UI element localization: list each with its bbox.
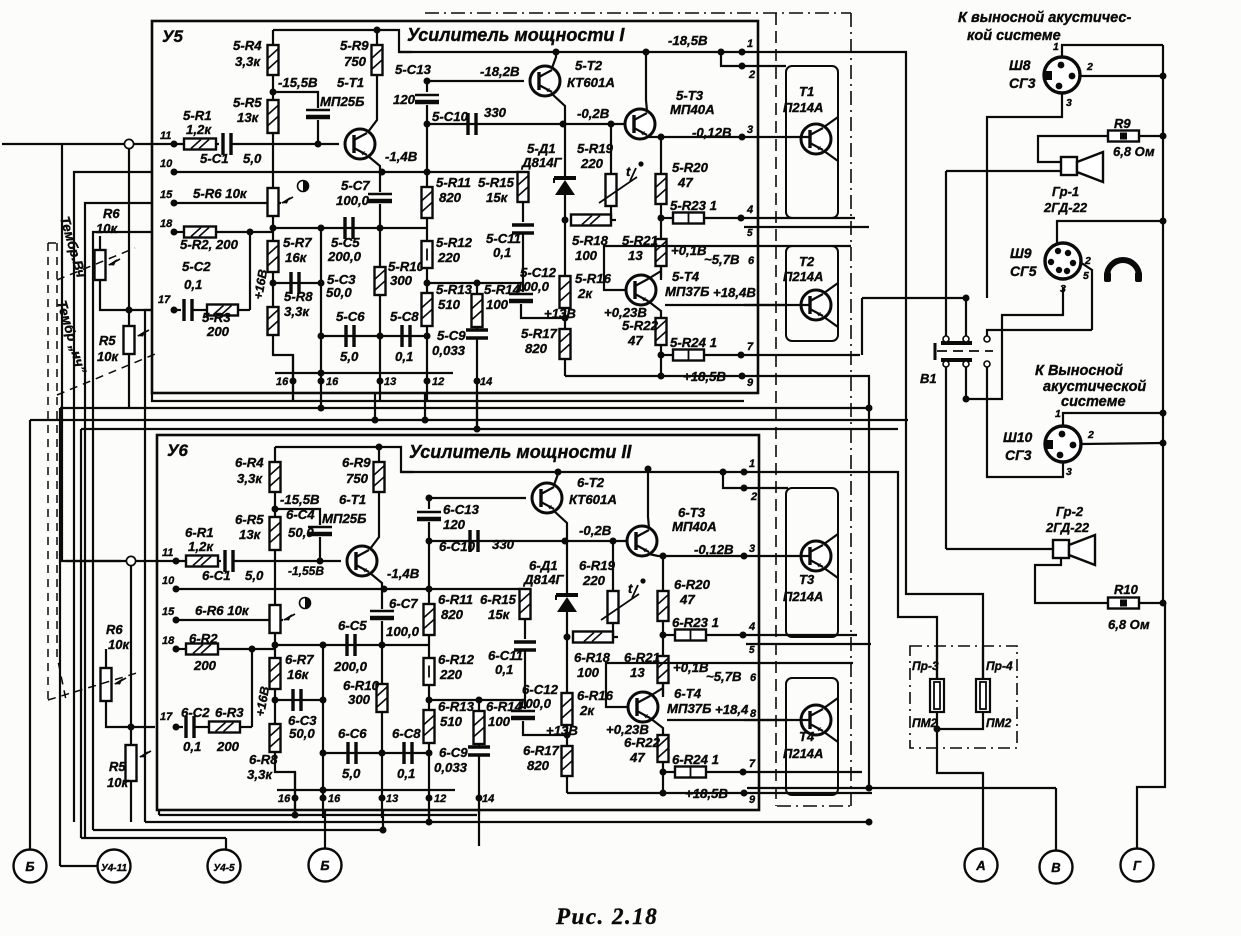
transistor Т3 — [801, 541, 831, 571]
B1 lead top2 — [965, 298, 967, 336]
svg-text:6-R2: 6-R2 — [189, 631, 218, 646]
node — [740, 632, 747, 639]
node — [658, 373, 665, 380]
connector Ш8 — [1044, 57, 1080, 93]
wire — [566, 541, 568, 595]
svg-text:1: 1 — [1055, 408, 1061, 420]
node — [318, 225, 325, 232]
resistor 5-R19 (thermistor) — [606, 174, 617, 206]
svg-text:9: 9 — [749, 794, 756, 806]
node — [426, 495, 433, 502]
svg-text:Гр-1: Гр-1 — [1052, 184, 1079, 199]
svg-text:15к: 15к — [488, 607, 511, 622]
svg-text:47: 47 — [677, 175, 693, 190]
transistor 6-T2 — [532, 483, 562, 513]
connector Ш10 — [1045, 426, 1081, 462]
node — [1160, 133, 1167, 140]
svg-text:5-R10: 5-R10 — [388, 259, 425, 274]
svg-text:0,1: 0,1 — [183, 739, 201, 754]
svg-text:Б: Б — [320, 858, 329, 873]
pin 2 wire — [721, 52, 786, 66]
wire — [428, 743, 430, 818]
capacitor 5-C3 — [289, 272, 292, 294]
node — [660, 769, 667, 776]
thermistor arrow t° — [599, 177, 637, 203]
resistor 6-R4 — [270, 462, 281, 492]
wire — [610, 124, 612, 174]
svg-text:6,8 Ом: 6,8 Ом — [1108, 617, 1150, 632]
svg-text:5-R19: 5-R19 — [577, 141, 614, 156]
svg-text:Усилитель мощности II: Усилитель мощности II — [409, 442, 632, 462]
node — [424, 280, 431, 287]
svg-text:5,0: 5,0 — [340, 349, 359, 364]
potentiometer R5b — [126, 745, 137, 781]
svg-text:-0,2В: -0,2В — [579, 523, 612, 538]
wire — [381, 712, 383, 818]
T2 emitter wire — [552, 94, 565, 124]
resistor 6-R23 — [675, 630, 706, 641]
capacitor 5-C9 — [466, 328, 488, 331]
Т4 base wire — [744, 719, 810, 721]
transistor 6-T3 — [627, 526, 657, 556]
svg-text:+18,4В: +18,4В — [713, 285, 756, 300]
node — [377, 378, 384, 385]
T2 collector wire — [552, 52, 556, 68]
svg-text:16: 16 — [276, 376, 289, 388]
wire Ш9.3 route — [966, 287, 1063, 399]
node pin11 — [171, 141, 178, 148]
node — [318, 370, 325, 377]
node — [476, 795, 483, 802]
svg-text:-18,5В: -18,5В — [668, 33, 708, 48]
fuse Пр-3 — [930, 679, 944, 712]
node — [741, 485, 748, 492]
node — [372, 417, 379, 424]
connector Ш9 — [1045, 243, 1081, 279]
wire pin14 drop — [476, 393, 478, 429]
svg-text:9: 9 — [747, 377, 754, 389]
Ш9 top wire — [1057, 221, 1163, 243]
resistor 6-R8 — [270, 724, 281, 752]
T4 emitter wire — [650, 718, 663, 735]
wire — [134, 143, 184, 145]
svg-text:6-С10: 6-С10 — [439, 539, 476, 554]
input terminal circle — [124, 139, 133, 148]
capacitor 5-C13 — [415, 94, 439, 96]
svg-text:10: 10 — [162, 575, 175, 587]
svg-text:1,2к: 1,2к — [188, 539, 214, 554]
wire — [376, 30, 378, 45]
wire — [476, 283, 478, 294]
resistor 5-R1 — [184, 139, 216, 150]
Т2 base wire — [744, 304, 810, 306]
svg-text:6-R17: 6-R17 — [523, 743, 560, 758]
resistor 5-R8 — [268, 307, 279, 335]
svg-text:5-R2, 200: 5-R2, 200 — [180, 237, 239, 252]
wire col380 — [381, 589, 383, 609]
wire left vert x74 — [74, 172, 152, 822]
T3 collector wire — [648, 469, 649, 528]
svg-text:0,1: 0,1 — [397, 766, 415, 781]
switch В1 top contact circles — [943, 336, 949, 342]
svg-text:17: 17 — [160, 711, 173, 723]
wire +18,5 rail — [565, 375, 744, 377]
node — [424, 121, 431, 128]
pin 6 wire — [744, 245, 851, 247]
node — [740, 769, 747, 776]
node — [270, 225, 277, 232]
capacitor 5-C12 — [509, 293, 533, 295]
Т3 base wire — [744, 555, 810, 557]
wire col869 — [868, 376, 870, 788]
svg-text:5-R22: 5-R22 — [622, 318, 659, 333]
svg-text:МП40А: МП40А — [672, 519, 717, 534]
svg-text:18: 18 — [162, 635, 175, 647]
svg-text:5-R20: 5-R20 — [672, 160, 709, 175]
svg-text:50,0: 50,0 — [288, 525, 314, 540]
adjust mark — [298, 181, 309, 192]
node — [741, 553, 748, 560]
node — [173, 724, 180, 731]
wire — [174, 309, 181, 311]
node — [739, 49, 746, 56]
node — [426, 538, 433, 545]
node — [173, 646, 180, 653]
Т1 collector wire — [824, 117, 838, 127]
transistor 5-T1 — [345, 129, 375, 159]
node — [426, 750, 433, 757]
svg-text:А: А — [975, 858, 985, 873]
wire — [663, 634, 675, 636]
T1 collector wire — [368, 75, 377, 132]
Т4 collector wire — [824, 698, 838, 708]
R10 inner mark — [1120, 600, 1127, 607]
wire — [272, 75, 274, 100]
svg-text:0,033: 0,033 — [434, 760, 468, 775]
T4 collector wire — [650, 688, 663, 696]
wire — [249, 232, 251, 310]
wire — [660, 204, 662, 239]
svg-text:П214А: П214А — [783, 269, 823, 284]
wire pin12 drop — [424, 393, 426, 420]
svg-text:Т2: Т2 — [799, 254, 815, 269]
wire rail283 — [429, 699, 523, 701]
svg-text:6-Т1: 6-Т1 — [339, 492, 366, 507]
svg-text:13к: 13к — [239, 527, 262, 542]
pin 6 wire — [746, 662, 853, 664]
wire — [662, 683, 664, 695]
wire — [706, 771, 746, 773]
amplifier block У6 border — [157, 435, 759, 810]
chassis border top dash-dot — [425, 12, 851, 14]
wire B row788 — [747, 787, 1056, 789]
svg-text:10к: 10к — [96, 221, 118, 236]
node — [555, 469, 562, 476]
node — [379, 795, 386, 802]
svg-text:В1: В1 — [920, 371, 937, 386]
wire — [238, 309, 250, 311]
svg-text:6-R22: 6-R22 — [624, 735, 661, 750]
svg-text:47: 47 — [679, 592, 695, 607]
svg-text:200,0: 200,0 — [333, 659, 368, 674]
resistor 5-R20 — [656, 174, 667, 204]
resistor 6-R13 — [424, 710, 435, 743]
svg-text:3,3к: 3,3к — [237, 471, 263, 486]
svg-text:5-R5: 5-R5 — [233, 95, 262, 110]
Ш8 pin2 wire — [1080, 75, 1163, 77]
wire R8 to pin16 — [275, 752, 295, 818]
svg-text:0,033: 0,033 — [432, 343, 466, 358]
R5 leads — [128, 149, 130, 326]
node — [290, 378, 297, 385]
wire U6 pin1 to fuse3 col — [746, 472, 937, 679]
wire bus y429 — [81, 428, 898, 430]
wire — [240, 726, 252, 728]
T2 collector wire — [554, 472, 558, 485]
wire — [428, 685, 430, 710]
R6 lead bottom — [100, 280, 152, 310]
resistor 6-R21 — [658, 656, 669, 683]
wire — [273, 282, 321, 284]
R6 wiper arrow — [109, 259, 120, 265]
node — [272, 697, 279, 704]
svg-text:5-С8: 5-С8 — [390, 309, 419, 324]
Т2 emitter wire — [824, 317, 838, 327]
svg-text:5-R11: 5-R11 — [436, 175, 471, 190]
Т1 base wire — [744, 136, 810, 138]
adjust mark — [300, 598, 311, 609]
wire — [426, 326, 428, 401]
transistor Т2 box — [786, 246, 838, 341]
Гр-2 return — [1035, 558, 1108, 603]
switch В1 bottom contact circles — [943, 361, 949, 367]
wire left vert x145 — [145, 310, 152, 822]
wire — [136, 560, 186, 562]
svg-text:100: 100 — [488, 714, 511, 729]
transistor Т4 — [801, 705, 831, 735]
wire — [660, 137, 662, 174]
wire — [564, 124, 566, 178]
svg-text:У4-11: У4-11 — [101, 863, 127, 874]
R5b lead bottom — [130, 781, 132, 822]
R9 inner mark — [1120, 133, 1127, 140]
B1 lead top3 — [987, 330, 1092, 336]
wire — [251, 649, 253, 727]
node — [660, 790, 667, 797]
svg-text:3: 3 — [749, 543, 755, 555]
node — [658, 352, 665, 359]
svg-text:12: 12 — [432, 376, 444, 388]
wire bus y408 — [60, 407, 869, 409]
resistor 5-R15 — [518, 172, 529, 202]
svg-text:100,0: 100,0 — [336, 193, 370, 208]
dashed link vertical — [47, 243, 49, 700]
resistor 5-R13 — [422, 293, 433, 326]
pin 9 wire — [746, 792, 872, 794]
node — [380, 827, 387, 834]
wire input — [65, 560, 126, 562]
svg-text:100,0: 100,0 — [516, 279, 550, 294]
amplifier block У5 border — [152, 21, 758, 393]
transistor Т4 box — [786, 678, 838, 795]
resistor 5-R24 — [673, 350, 704, 361]
svg-text:Ш8: Ш8 — [1009, 57, 1031, 73]
wire row10 — [174, 171, 523, 173]
svg-text:10: 10 — [160, 158, 173, 170]
node — [474, 426, 481, 433]
wire — [274, 550, 276, 605]
svg-text:6,8 Ом: 6,8 Ом — [1113, 144, 1155, 159]
svg-text:5-Т3: 5-Т3 — [676, 88, 704, 103]
svg-text:5-Д1: 5-Д1 — [527, 141, 556, 156]
svg-text:-15,5В: -15,5В — [280, 492, 320, 507]
transistor 5-T2 — [530, 66, 560, 96]
svg-text:120: 120 — [443, 517, 466, 532]
node — [739, 373, 746, 380]
fuse Пр-4 — [976, 679, 990, 712]
B1 lead bottom2 — [965, 367, 967, 399]
wire — [524, 619, 526, 639]
svg-text:13: 13 — [630, 665, 645, 680]
R10 right lead — [1139, 602, 1163, 604]
svg-text:5-Т1: 5-Т1 — [337, 75, 364, 90]
node pin11 — [173, 558, 180, 565]
node — [315, 141, 322, 148]
wire — [272, 272, 274, 307]
svg-text:6-С2: 6-С2 — [181, 705, 210, 720]
wire C12 to R16R17 — [523, 721, 567, 735]
node — [422, 417, 429, 424]
svg-text:3: 3 — [747, 124, 753, 136]
Гр-2 feed — [946, 548, 1053, 550]
svg-text:5,0: 5,0 — [342, 766, 361, 781]
node — [608, 121, 615, 128]
node — [424, 169, 431, 176]
switch В1 top contacts — [941, 341, 972, 345]
resistor 6-R15 — [520, 589, 531, 619]
wire — [274, 633, 276, 658]
chassis border right of transistor column (dash-dot) — [850, 13, 852, 806]
node — [426, 795, 433, 802]
resistor 5-R11 — [422, 187, 433, 218]
svg-text:У6: У6 — [167, 441, 189, 460]
svg-text:Пр-4: Пр-4 — [986, 659, 1013, 673]
wire — [378, 447, 380, 462]
node — [866, 405, 873, 412]
node — [320, 642, 327, 649]
svg-text:-1,55В: -1,55В — [288, 564, 324, 578]
resistor 5-R12 — [422, 241, 433, 268]
svg-text:5-R3: 5-R3 — [202, 310, 231, 325]
capacitor 5-C5 — [343, 217, 346, 239]
node — [564, 634, 571, 641]
wire — [478, 744, 480, 747]
svg-text:1: 1 — [1053, 41, 1059, 53]
B1 lead bottom1 — [945, 367, 947, 549]
svg-text:6-С5: 6-С5 — [338, 618, 367, 633]
wire — [194, 726, 209, 728]
resistor 6-R12 — [424, 658, 435, 685]
svg-text:5-Т4: 5-Т4 — [672, 269, 700, 284]
wire — [428, 522, 430, 604]
dashed link to R6 — [57, 248, 135, 280]
svg-text:-0,12В: -0,12В — [694, 542, 734, 557]
svg-text:510: 510 — [440, 714, 463, 729]
svg-text:6-R13: 6-R13 — [438, 699, 475, 714]
wire — [476, 338, 478, 429]
node — [270, 280, 277, 287]
pin 4 wire — [746, 634, 857, 636]
wire bus y401 — [152, 393, 744, 401]
T1 collector wire — [370, 492, 379, 549]
pin 7 wire — [746, 771, 862, 773]
Т2 collector wire — [824, 283, 838, 293]
R6b wiper arrow — [115, 678, 126, 684]
wire — [478, 700, 480, 711]
svg-text:16к: 16к — [285, 250, 308, 265]
svg-text:10к: 10к — [107, 775, 129, 790]
svg-text:13: 13 — [384, 376, 396, 388]
wire T4 collector up — [662, 683, 664, 697]
svg-text:+18,5В: +18,5В — [685, 786, 728, 801]
wire pin14b drop — [478, 810, 480, 815]
svg-text:5-R6 10к: 5-R6 10к — [193, 186, 248, 201]
svg-text:R5: R5 — [99, 333, 116, 348]
T1 emitter wire — [370, 573, 382, 589]
svg-text:Ш10: Ш10 — [1003, 429, 1032, 445]
node — [173, 617, 180, 624]
wire — [381, 621, 383, 684]
svg-text:МП40А: МП40А — [670, 102, 715, 117]
node -15,5V — [270, 89, 277, 96]
wire — [428, 635, 430, 658]
capacitor 6-C9 — [468, 745, 490, 748]
svg-text:R9: R9 — [1114, 116, 1131, 131]
pin 16 wire — [292, 355, 294, 401]
wire — [478, 755, 480, 846]
pin 8 wire — [744, 304, 786, 306]
pin 1 wire — [401, 471, 746, 473]
svg-text:Д814Г: Д814Г — [523, 572, 565, 587]
wire — [426, 268, 428, 293]
svg-text:СГ5: СГ5 — [1010, 263, 1037, 279]
wire T2 base row — [429, 497, 526, 499]
wire Г vert — [1137, 603, 1165, 848]
svg-text:5: 5 — [749, 645, 755, 656]
svg-text:2: 2 — [748, 69, 755, 81]
svg-text:15к: 15к — [486, 190, 509, 205]
wire — [566, 776, 568, 793]
node — [247, 229, 254, 236]
wire C4 branch — [275, 509, 320, 525]
wire row15 — [174, 202, 281, 204]
svg-text:47: 47 — [629, 750, 645, 765]
node — [963, 295, 970, 302]
svg-text:6-R9: 6-R9 — [342, 455, 371, 470]
svg-text:6-R10: 6-R10 — [343, 678, 380, 693]
svg-text:6-С1: 6-С1 — [202, 568, 231, 583]
svg-text:3,3к: 3,3к — [235, 54, 261, 69]
wire C4 branch — [273, 92, 318, 108]
wire rail C6C8 — [321, 335, 427, 337]
wire rail C5 — [275, 644, 429, 646]
R6b lead bottom — [106, 701, 155, 727]
svg-text:МП37Б: МП37Б — [667, 701, 711, 716]
wire rail C6C8 — [323, 752, 429, 754]
svg-text:13: 13 — [386, 793, 398, 805]
svg-text:Т4: Т4 — [799, 729, 815, 744]
wire row18 — [174, 231, 184, 233]
